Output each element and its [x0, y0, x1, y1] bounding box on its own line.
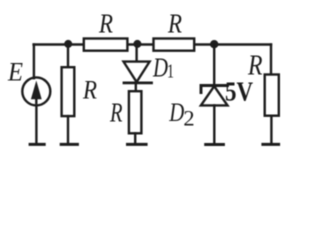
- svg-text:D: D: [152, 52, 168, 82]
- wire right R bottom: [270, 116, 272, 145]
- resistor R (left vertical): [62, 67, 75, 116]
- voltage source E circle: [22, 77, 50, 105]
- wire D1 to R: [135, 83, 137, 91]
- svg-text:R: R: [167, 8, 182, 38]
- diode D1 triangle: [124, 62, 150, 82]
- terminal bar under D1 branch: [128, 143, 147, 146]
- node dot 1: [64, 40, 72, 48]
- svg-text:2: 2: [183, 106, 194, 131]
- zener D2 triangle: [201, 86, 228, 105]
- terminal bar under E: [30, 143, 44, 146]
- wire E bottom: [35, 106, 37, 145]
- svg-text:E: E: [7, 58, 23, 87]
- svg-text:R: R: [109, 98, 123, 128]
- svg-text:1: 1: [167, 60, 174, 82]
- terminal bar under D2: [206, 143, 224, 146]
- wire right drop from top-right corner: [270, 45, 272, 75]
- resistor R (second horizontal): [154, 39, 195, 51]
- resistor R (first horizontal): [84, 39, 128, 51]
- diode D1 cathode bar: [124, 82, 152, 85]
- svg-text:5V: 5V: [225, 77, 253, 107]
- wire dot2 to D1: [135, 44, 137, 62]
- resistor R (right vertical): [265, 75, 279, 116]
- wire top rail: [34, 43, 271, 45]
- terminal bar under left R: [61, 143, 77, 146]
- node dot 3: [210, 40, 218, 48]
- node dot 2: [133, 40, 141, 48]
- wire D2 bottom: [213, 105, 215, 144]
- wire R bottom: [67, 116, 69, 144]
- svg-text:R: R: [82, 76, 97, 105]
- svg-text:R: R: [98, 8, 113, 38]
- voltage source E arrow: [31, 81, 42, 105]
- zener D2 cathode bar with left tail: [201, 86, 228, 93]
- wire dot1 to R box: [67, 45, 69, 68]
- terminal bar under right R: [263, 143, 279, 146]
- wire left drop from top-left corner: [33, 45, 35, 79]
- wire dot3 to D2: [213, 44, 215, 85]
- resistor R (under D1): [129, 91, 142, 133]
- wire R bottom (D1 branch): [134, 133, 136, 144]
- svg-text:D: D: [169, 97, 185, 127]
